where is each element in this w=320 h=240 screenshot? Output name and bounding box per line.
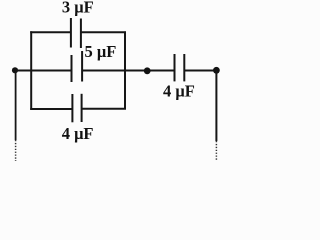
wire: main bus, node A to 5uF left plate	[15, 70, 72, 72]
node B (middle junction dot)	[144, 67, 151, 74]
background paper	[0, 0, 244, 171]
wire: left lead down from node A	[15, 71, 17, 141]
wire: parallel-block left vertical side	[30, 31, 32, 110]
wire: bottom branch, right segment	[82, 108, 126, 110]
wire: top branch, left segment	[30, 31, 71, 33]
capacitor 5 uF (middle branch)	[72, 51, 83, 82]
capacitor 4 uF (series)	[175, 54, 185, 81]
svg-text:4 μF: 4 μF	[62, 124, 94, 143]
wire: parallel-block right vertical side	[124, 31, 126, 109]
wire: main bus, 5uF right plate to node B	[82, 70, 174, 72]
capacitor 4 uF (bottom branch)	[72, 94, 81, 123]
wire: main bus, series 4uF right plate to node C	[184, 70, 216, 72]
wire: top branch, right segment	[81, 31, 126, 33]
node C (right junction dot)	[213, 67, 220, 74]
wire: bottom branch, left segment	[30, 108, 72, 110]
svg-text:3 μF: 3 μF	[62, 0, 94, 17]
wire: right lead dotted continuation	[215, 141, 217, 161]
node A (left junction dot)	[12, 67, 18, 73]
svg-text:4 μF: 4 μF	[163, 82, 195, 101]
capacitor 3 uF (top branch)	[71, 18, 81, 48]
wire: right lead down from node C	[215, 70, 217, 141]
svg-text:5 μF: 5 μF	[84, 42, 116, 61]
wire: left lead dotted continuation	[15, 140, 17, 161]
